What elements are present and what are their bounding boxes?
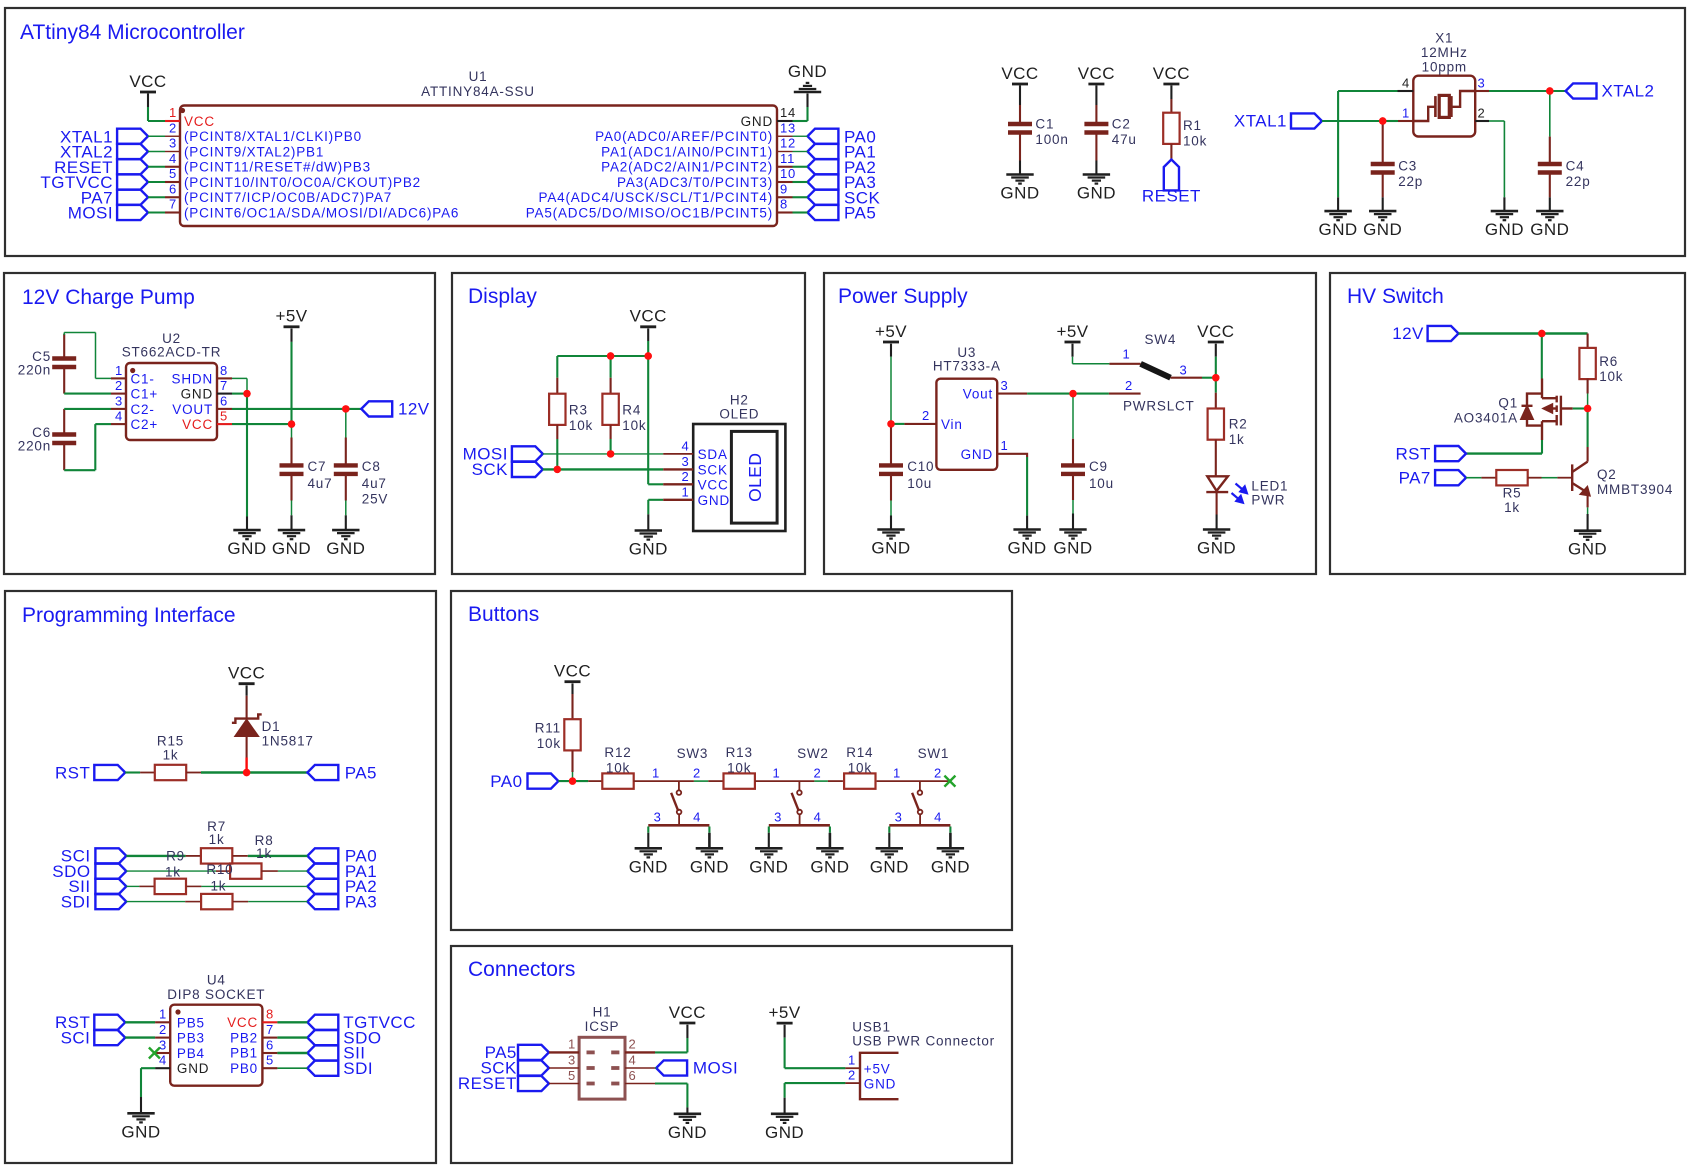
switch SW4 blade <box>1141 364 1171 378</box>
pin-1 marker dot U1 <box>180 108 185 113</box>
svg-text:PWR: PWR <box>1251 492 1285 507</box>
svg-text:ST662ACD-TR: ST662ACD-TR <box>122 345 222 360</box>
svg-text:GND: GND <box>1077 184 1116 203</box>
pin 4 of U2 <box>111 423 126 425</box>
svg-text:4u7: 4u7 <box>362 476 387 491</box>
svg-text:(PCINT8/XTAL1/CLKI)PB0: (PCINT8/XTAL1/CLKI)PB0 <box>184 129 362 144</box>
global label PA0 (grid) <box>307 848 338 863</box>
svg-text:2: 2 <box>693 765 701 780</box>
svg-text:(PCINT10/INT0/OC0A/CKOUT)PB2: (PCINT10/INT0/OC0A/CKOUT)PB2 <box>184 175 421 190</box>
resistor R7 <box>186 855 201 857</box>
capacitor C5 <box>63 334 65 359</box>
wire <box>1072 500 1074 514</box>
global label PA5 (H1) <box>518 1045 549 1060</box>
svg-text:DIP8 SOCKET: DIP8 SOCKET <box>167 987 265 1002</box>
power GND (X1 pin4) <box>1324 210 1351 213</box>
global label PA0 (buttons) <box>528 774 559 789</box>
wire <box>793 166 808 168</box>
svg-text:5: 5 <box>568 1068 576 1083</box>
svg-text:GND: GND <box>749 857 788 876</box>
svg-text:H1: H1 <box>593 1005 612 1020</box>
resistor R13 <box>724 773 755 788</box>
connector USB1 body <box>860 1053 899 1099</box>
capacitor C2 <box>1095 105 1097 124</box>
wire Q2 collector <box>1587 409 1589 448</box>
svg-text:4: 4 <box>169 151 177 166</box>
svg-text:1: 1 <box>115 363 123 378</box>
svg-text:C2: C2 <box>1112 116 1131 131</box>
svg-text:VOUT: VOUT <box>172 402 213 417</box>
switch SW2 <box>798 781 800 790</box>
resistor R15 <box>140 772 155 774</box>
wire VCC to U1 pin1 <box>147 94 149 108</box>
svg-text:7: 7 <box>220 378 228 393</box>
wire U2 pin3 to C6 <box>64 408 111 410</box>
resistor R12 <box>588 780 602 782</box>
svg-text:5: 5 <box>266 1053 274 1068</box>
wire <box>686 1025 688 1038</box>
svg-text:C2+: C2+ <box>131 417 159 432</box>
pin 2 PWRSLCT stub <box>1109 393 1141 395</box>
svg-text:1k: 1k <box>1504 500 1520 515</box>
svg-text:Q2: Q2 <box>1597 467 1617 482</box>
svg-text:R13: R13 <box>726 745 753 760</box>
global label TGTVCC (U4) <box>307 1015 338 1030</box>
svg-text:GND: GND <box>1053 539 1092 558</box>
svg-text:(PCINT11/RESET#/dW)PB3: (PCINT11/RESET#/dW)PB3 <box>184 160 371 175</box>
pin 6 of U2 <box>217 408 232 410</box>
svg-text:8: 8 <box>220 363 228 378</box>
svg-text:(PCINT6/OC1A/SDA/MOSI/DI/ADC6): (PCINT6/OC1A/SDA/MOSI/DI/ADC6)PA6 <box>184 205 459 220</box>
power GND (C3) <box>1369 210 1396 213</box>
wire <box>784 1025 786 1038</box>
svg-text:1k: 1k <box>209 832 225 847</box>
pin 2 of U4 <box>155 1037 170 1039</box>
svg-text:ATtiny84 Microcontroller: ATtiny84 Microcontroller <box>20 21 245 44</box>
junction dots overlay <box>1379 117 1386 124</box>
power GND (X1 pin2) <box>1491 210 1518 213</box>
svg-text:C2-: C2- <box>131 402 155 417</box>
svg-text:SCI: SCI <box>61 1028 91 1047</box>
svg-text:+5V: +5V <box>1056 322 1088 341</box>
svg-text:USB1: USB1 <box>852 1020 890 1035</box>
svg-text:1: 1 <box>772 765 780 780</box>
power +5V (SW4) <box>1065 341 1081 344</box>
svg-text:C1-: C1- <box>131 371 155 386</box>
svg-text:SDI: SDI <box>61 892 91 911</box>
svg-text:PA5(ADC5/DO/MISO/OC1B/PCINT5): PA5(ADC5/DO/MISO/OC1B/PCINT5) <box>526 205 773 220</box>
power GND (C4) <box>1536 210 1563 213</box>
wire U2 pin1 loop <box>96 377 112 379</box>
global label MOSI (display) <box>512 446 543 461</box>
power VCC (buttons) <box>565 680 581 683</box>
wire <box>246 685 248 695</box>
svg-text:GND: GND <box>788 62 827 81</box>
svg-text:Display: Display <box>468 285 537 308</box>
svg-text:4: 4 <box>159 1053 167 1068</box>
power VCC (SW4) <box>1208 341 1224 344</box>
global label XTAL1 <box>117 129 148 144</box>
power GND (U2) <box>233 529 260 532</box>
wire <box>793 196 808 198</box>
global label RST (U4) <box>94 1015 125 1030</box>
pin 3 of SW4 <box>1171 377 1203 379</box>
svg-text:VCC: VCC <box>129 72 166 91</box>
svg-text:5: 5 <box>169 166 177 181</box>
wire X1 pin2 down <box>1489 120 1504 122</box>
svg-text:2: 2 <box>922 408 930 423</box>
svg-text:VCC: VCC <box>698 477 729 492</box>
svg-text:4: 4 <box>1402 76 1410 91</box>
svg-text:12V: 12V <box>398 400 430 419</box>
power GND (USB1) <box>771 1113 798 1116</box>
svg-text:SCK: SCK <box>698 462 728 477</box>
global label PA1 <box>808 144 839 159</box>
wire <box>1503 197 1505 211</box>
svg-text:SW3: SW3 <box>677 746 709 761</box>
svg-text:12: 12 <box>780 136 796 151</box>
svg-text:6: 6 <box>266 1037 274 1052</box>
capacitor C10 <box>890 424 892 466</box>
svg-text:1: 1 <box>848 1053 856 1068</box>
svg-text:Q1: Q1 <box>1498 396 1518 411</box>
ic U2 ST662ACD-TR body <box>126 363 217 440</box>
pin 4 of X1 <box>1398 90 1414 92</box>
wire H1 gnd <box>655 1082 687 1084</box>
svg-text:2: 2 <box>681 469 689 484</box>
wire <box>1216 492 1218 514</box>
junction +5V/C7 node <box>288 420 295 427</box>
pin 2 of X1 <box>1475 120 1489 122</box>
svg-text:R5: R5 <box>1503 486 1522 501</box>
wire VOUT to 12V <box>232 408 361 410</box>
svg-text:AO3401A: AO3401A <box>1454 411 1518 426</box>
wire U3 gnd <box>1026 457 1028 516</box>
wire <box>125 771 140 773</box>
svg-text:1k: 1k <box>1229 432 1245 447</box>
section frame: Power Supply <box>824 273 1316 574</box>
connector H2 OLED body <box>693 424 785 531</box>
svg-text:PA5: PA5 <box>345 763 377 782</box>
pin 1 of USB1 <box>845 1067 860 1069</box>
svg-text:GND: GND <box>690 857 729 876</box>
pin 7 of U4 <box>262 1037 277 1039</box>
power GND (Q2) <box>1574 529 1601 532</box>
svg-text:VCC: VCC <box>1197 322 1234 341</box>
svg-text:3: 3 <box>115 393 123 408</box>
svg-text:VCC: VCC <box>1001 64 1038 83</box>
svg-text:+5V: +5V <box>769 1003 801 1022</box>
svg-text:2: 2 <box>1478 106 1486 121</box>
global label SDI (U4) <box>307 1061 338 1076</box>
svg-text:2: 2 <box>169 120 177 135</box>
led LED1 <box>1207 476 1228 491</box>
pin-1 marker dot U2 <box>130 368 135 373</box>
svg-text:3: 3 <box>1001 378 1009 393</box>
svg-text:GND: GND <box>870 857 909 876</box>
power GND (C2) <box>1083 173 1110 176</box>
svg-text:VCC: VCC <box>182 417 213 432</box>
pin 2 of U1 <box>165 135 180 137</box>
wire Q1 source <box>1541 440 1543 454</box>
wire <box>126 885 139 887</box>
global label PA5 <box>808 205 839 220</box>
svg-text:9: 9 <box>780 181 788 196</box>
svg-text:GND: GND <box>810 857 849 876</box>
power VCC (D1) <box>239 682 255 685</box>
wire Q2 emitter <box>1587 493 1589 508</box>
svg-text:VCC: VCC <box>227 1015 258 1030</box>
wire X1 pin4 rail <box>1338 90 1397 92</box>
wire Vout rail <box>1027 393 1109 395</box>
svg-text:25V: 25V <box>362 491 388 506</box>
svg-text:PA4(ADC4/USCK/SCL/T1/PCINT4): PA4(ADC4/USCK/SCL/T1/PCINT4) <box>539 190 773 205</box>
wire <box>1019 86 1021 106</box>
global label XTAL2 (top) <box>1566 83 1597 98</box>
pin 9 of U1 <box>777 196 793 198</box>
wire <box>1382 197 1384 211</box>
svg-text:10k: 10k <box>727 760 751 775</box>
pin 3 of H1 <box>549 1067 579 1069</box>
svg-text:SW4: SW4 <box>1144 332 1176 347</box>
junction <box>1538 330 1545 337</box>
junction <box>645 352 652 359</box>
wire Q1 gate <box>1573 407 1588 409</box>
svg-text:10k: 10k <box>569 418 593 433</box>
svg-text:GND: GND <box>1000 184 1039 203</box>
svg-text:GND: GND <box>961 447 993 462</box>
svg-text:1: 1 <box>169 105 177 120</box>
svg-text:VCC: VCC <box>669 1003 706 1022</box>
wire SHDN-GND rail <box>232 377 247 379</box>
capacitor C9 <box>1072 394 1074 439</box>
svg-text:47u: 47u <box>1112 132 1137 147</box>
svg-text:PB1: PB1 <box>230 1046 258 1061</box>
svg-text:+5V: +5V <box>864 1061 891 1076</box>
wire <box>148 181 165 183</box>
wire <box>261 870 278 872</box>
pin-1 marker dot U4 <box>175 1009 180 1014</box>
svg-text:12V Charge Pump: 12V Charge Pump <box>22 286 195 309</box>
wire <box>277 1021 307 1023</box>
wire <box>246 736 248 757</box>
svg-text:5: 5 <box>220 409 228 424</box>
svg-text:PA2(ADC2/AIN1/PCINT2): PA2(ADC2/AIN1/PCINT2) <box>601 160 773 175</box>
svg-text:PA0(ADC0/AREF/PCINT0): PA0(ADC0/AREF/PCINT0) <box>595 129 773 144</box>
wire <box>1215 440 1217 477</box>
svg-text:MOSI: MOSI <box>68 204 113 223</box>
pin 5 of U1 <box>165 181 180 183</box>
power GND (SW2 b) <box>816 847 843 850</box>
svg-text:R3: R3 <box>569 402 588 417</box>
svg-text:8: 8 <box>780 197 788 212</box>
section frame: 12V Charge Pump <box>4 273 435 574</box>
resistor R2 <box>1215 378 1217 393</box>
pin 1 of U2 <box>111 377 126 379</box>
switch SW1 <box>919 781 921 790</box>
svg-text:PWRSLCT: PWRSLCT <box>1123 399 1195 414</box>
svg-text:14: 14 <box>780 105 796 120</box>
wire <box>1549 197 1551 211</box>
switch SW3 <box>678 781 680 790</box>
pin 2 of U2 <box>111 393 126 395</box>
svg-text:C3: C3 <box>1398 159 1417 174</box>
svg-text:6: 6 <box>169 181 177 196</box>
junction U2 gnd node <box>243 390 250 397</box>
svg-text:10k: 10k <box>622 418 646 433</box>
wire <box>1095 161 1097 175</box>
wire <box>1019 161 1021 175</box>
svg-text:VCC: VCC <box>554 662 591 681</box>
connector H1 ICSP body <box>579 1037 625 1099</box>
transistor Q1 AO3401A <box>1522 379 1573 441</box>
svg-text:1k: 1k <box>163 747 179 762</box>
wire button row <box>877 780 948 782</box>
svg-text:R2: R2 <box>1229 416 1248 431</box>
no-connect X (SW1 pin2) <box>944 776 955 787</box>
transistor Q2 MMBT3904 <box>1572 462 1590 496</box>
wire U2 pin4 loop <box>95 423 111 425</box>
svg-text:SW1: SW1 <box>918 746 950 761</box>
pin 3 of U4 <box>155 1052 170 1054</box>
svg-text:R6: R6 <box>1599 354 1618 369</box>
svg-text:ICSP: ICSP <box>585 1019 620 1034</box>
svg-text:2: 2 <box>814 765 822 780</box>
pin 1 VCC of U1 <box>165 120 180 122</box>
svg-text:SHDN: SHDN <box>172 371 213 386</box>
wire <box>890 501 892 516</box>
wire H2 gnd <box>648 499 663 501</box>
capacitor C1 <box>1019 105 1021 124</box>
wire <box>148 196 165 198</box>
svg-text:Vin: Vin <box>941 417 963 432</box>
svg-text:4: 4 <box>934 810 942 825</box>
svg-text:GND: GND <box>871 539 910 558</box>
wire <box>793 181 808 183</box>
global label PA1 (grid) <box>307 864 338 879</box>
global label SII (U4) <box>307 1045 338 1060</box>
svg-text:ATTINY84A-SSU: ATTINY84A-SSU <box>421 84 535 99</box>
wire <box>246 517 248 531</box>
wire <box>571 750 573 772</box>
svg-text:1: 1 <box>1402 106 1410 121</box>
svg-text:OLED: OLED <box>745 452 765 501</box>
global label RST (HV) <box>1435 446 1466 461</box>
svg-text:HV Switch: HV Switch <box>1347 285 1444 308</box>
wire button row <box>634 780 694 782</box>
svg-text:1: 1 <box>1122 347 1130 362</box>
pin 8 of U1 <box>777 211 793 213</box>
power VCC (C1) <box>1012 83 1028 86</box>
svg-text:GND: GND <box>698 493 730 508</box>
pin 1 GND of H2 <box>663 499 693 501</box>
power GND (display) <box>635 529 662 532</box>
svg-text:GND: GND <box>1485 220 1524 239</box>
wire <box>148 166 165 168</box>
wire <box>277 1036 307 1038</box>
svg-text:RST: RST <box>55 763 90 782</box>
svg-text:10k: 10k <box>537 736 561 751</box>
svg-text:4: 4 <box>693 810 701 825</box>
pin 1 of SW4 <box>1109 363 1140 365</box>
wire to Vin <box>891 423 904 425</box>
svg-text:+5V: +5V <box>875 322 907 341</box>
wire U4 gnd <box>141 1067 155 1069</box>
global label 12V (charge pump) <box>361 401 392 416</box>
wire <box>187 885 202 887</box>
svg-text:4u7: 4u7 <box>308 476 333 491</box>
svg-text:R11: R11 <box>535 721 561 736</box>
svg-text:GND: GND <box>1530 220 1569 239</box>
resistor R11 <box>571 694 573 719</box>
svg-text:GND: GND <box>1008 539 1047 558</box>
svg-text:3: 3 <box>169 136 177 151</box>
svg-text:GND: GND <box>272 539 311 558</box>
power GND (C8) <box>332 529 359 532</box>
power VCC (H1) <box>679 1022 695 1025</box>
svg-text:4: 4 <box>629 1052 637 1067</box>
wire button row <box>755 780 814 782</box>
svg-text:R1: R1 <box>1183 118 1202 133</box>
wire <box>125 1036 155 1038</box>
svg-text:R10: R10 <box>206 862 233 877</box>
power GND (U1 pin14) <box>794 91 821 94</box>
svg-text:GND: GND <box>1363 220 1402 239</box>
svg-text:PA3(ADC3/T0/PCINT3): PA3(ADC3/T0/PCINT3) <box>617 175 773 190</box>
power GND (SW1 b) <box>937 847 964 850</box>
global label PA3 <box>808 174 839 189</box>
svg-text:6: 6 <box>220 393 228 408</box>
global label PA7 <box>117 190 148 205</box>
power GND (SW3 b) <box>696 847 723 850</box>
svg-text:2: 2 <box>1125 378 1133 393</box>
wire <box>1337 197 1339 211</box>
wire <box>890 344 892 357</box>
wire Q1 drain <box>1541 334 1543 379</box>
wire XTAL1 to X1 pin1 <box>1322 120 1383 122</box>
svg-text:(PCINT7/ICP/OC0B/ADC7)PA7: (PCINT7/ICP/OC0B/ADC7)PA7 <box>184 190 392 205</box>
svg-text:3: 3 <box>568 1052 576 1067</box>
resistor R4 <box>610 356 612 378</box>
svg-text:R12: R12 <box>604 745 631 760</box>
pin 7 of U2 <box>217 393 232 395</box>
wire <box>793 211 808 213</box>
pin 3 SCK of H2 <box>663 468 693 470</box>
capacitor C7 <box>291 424 293 437</box>
wire <box>1170 86 1172 100</box>
wire <box>785 1082 846 1084</box>
wire VCC drop to H2 <box>647 356 649 484</box>
power +5V (U3 in) <box>883 341 899 344</box>
global label XTAL1 (top) <box>1291 113 1322 128</box>
svg-text:3: 3 <box>159 1037 167 1052</box>
section frame: Display <box>452 273 805 574</box>
svg-text:R14: R14 <box>846 745 873 760</box>
pin 2 of H1 <box>625 1051 655 1053</box>
svg-text:220n: 220n <box>18 363 51 378</box>
svg-text:12V: 12V <box>1392 324 1424 343</box>
power GND (SW3 a) <box>635 847 662 850</box>
svg-text:SW2: SW2 <box>797 746 829 761</box>
svg-text:+5V: +5V <box>275 307 307 326</box>
wire <box>125 1021 155 1023</box>
svg-text:22p: 22p <box>1398 174 1423 189</box>
wire <box>793 135 808 137</box>
ic U4 DIP8 SOCKET body <box>170 1005 262 1086</box>
svg-text:C1+: C1+ <box>131 387 159 402</box>
svg-text:4: 4 <box>681 438 689 453</box>
svg-text:Connectors: Connectors <box>468 958 575 981</box>
